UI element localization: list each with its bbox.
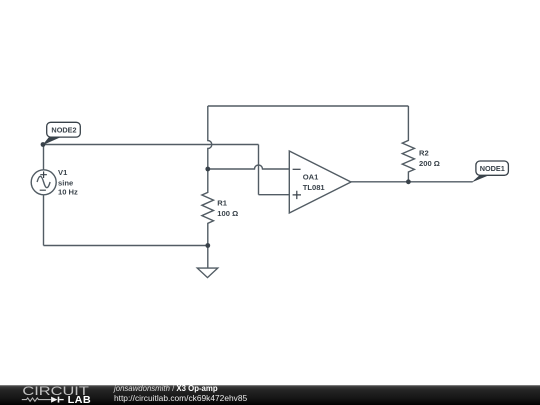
op-amp OA1 (289, 151, 351, 213)
wire ground stub vertical (207, 246, 209, 269)
resistor R1 (202, 169, 214, 246)
svg-text:200 Ω: 200 Ω (419, 159, 440, 168)
voltage source V1 (31, 170, 56, 195)
ground (197, 268, 217, 278)
wire + input horizontal (259, 194, 290, 196)
svg-text:V1: V1 (58, 168, 68, 177)
node C junction (bottom wire / ground) (205, 243, 210, 248)
wire vertical down to + input (258, 145, 260, 195)
svg-text:OA1: OA1 (303, 173, 319, 182)
wire - input horizontal with hop over vertical wire (208, 165, 289, 169)
svg-text:NODE2: NODE2 (51, 126, 76, 135)
svg-text:10 Hz: 10 Hz (58, 187, 78, 196)
label R1 value 100 ohm (217, 199, 238, 218)
svg-text:LAB: LAB (68, 395, 92, 405)
V1 polarity marks + and - (40, 171, 47, 190)
resistor R2 (402, 106, 414, 182)
footer bar (0, 385, 540, 405)
svg-text:NODE1: NODE1 (480, 164, 505, 173)
wire V1 top vertical (43, 145, 45, 170)
label R2 value 200 ohm (419, 149, 440, 168)
svg-text:R2: R2 (419, 149, 429, 158)
CircuitLab logo (0, 384, 110, 405)
wire V1 bottom vertical (43, 195, 45, 246)
svg-text:R1: R1 (217, 199, 227, 208)
wire output horizontal (351, 181, 473, 183)
node NODE2 (41, 122, 81, 147)
op-amp inverting (-) and noninverting (+) input marks (293, 169, 301, 199)
wire top feedback horizontal (208, 105, 409, 107)
node B junction (R2 / output) (406, 179, 411, 184)
wire NODE2 horizontal (V1+ to noninverting branch) (43, 144, 259, 146)
svg-text:TL081: TL081 (303, 183, 326, 192)
svg-text:100 Ω: 100 Ω (217, 209, 238, 218)
wire bottom horizontal (V1- to ground) (44, 245, 208, 247)
wire feedback vertical with hop over NODE2 wire (208, 106, 212, 169)
node A junction (feedback / R1 / - input) (205, 167, 210, 172)
node NODE1 (472, 161, 509, 182)
label V1 value sine 10 Hz (58, 168, 78, 196)
svg-text:sine: sine (58, 178, 73, 187)
label OA1 TL081 (303, 173, 326, 192)
